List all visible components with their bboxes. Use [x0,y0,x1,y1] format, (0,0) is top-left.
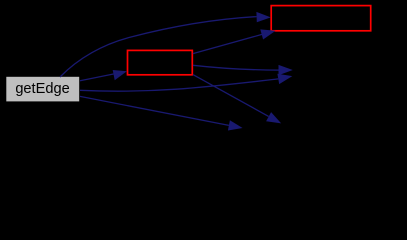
node box3 (top-right red box, empty) [271,6,371,31]
edge getEdge -> box2 [80,74,114,81]
arrowhead A6 into hidden node Y [266,112,281,123]
arrowhead A1 into box3 left edge [256,12,270,22]
node getEdge (gray box) [6,77,79,102]
arrowhead A2 into box3 bottom edge [260,29,275,39]
node box2 (middle red box, empty) [128,50,193,74]
arrowhead A4 into hidden node X [279,65,293,75]
arrowhead A5 into hidden node X [277,74,292,84]
edge getEdge -> hidden node Z [80,96,229,125]
edge getEdge -> hidden node X (lower) [80,79,278,91]
edge box2 -> hidden node Y [193,75,269,117]
edge getEdge -> box3 (curved) [60,17,257,77]
edge box2 -> box3 [193,34,262,53]
svg-text:getEdge: getEdge [15,81,69,97]
arrowhead A3 into box2 left edge [113,70,127,80]
arrowhead A7 into hidden node Z [228,120,243,130]
edge box2 -> hidden node X (upper) [193,65,279,70]
